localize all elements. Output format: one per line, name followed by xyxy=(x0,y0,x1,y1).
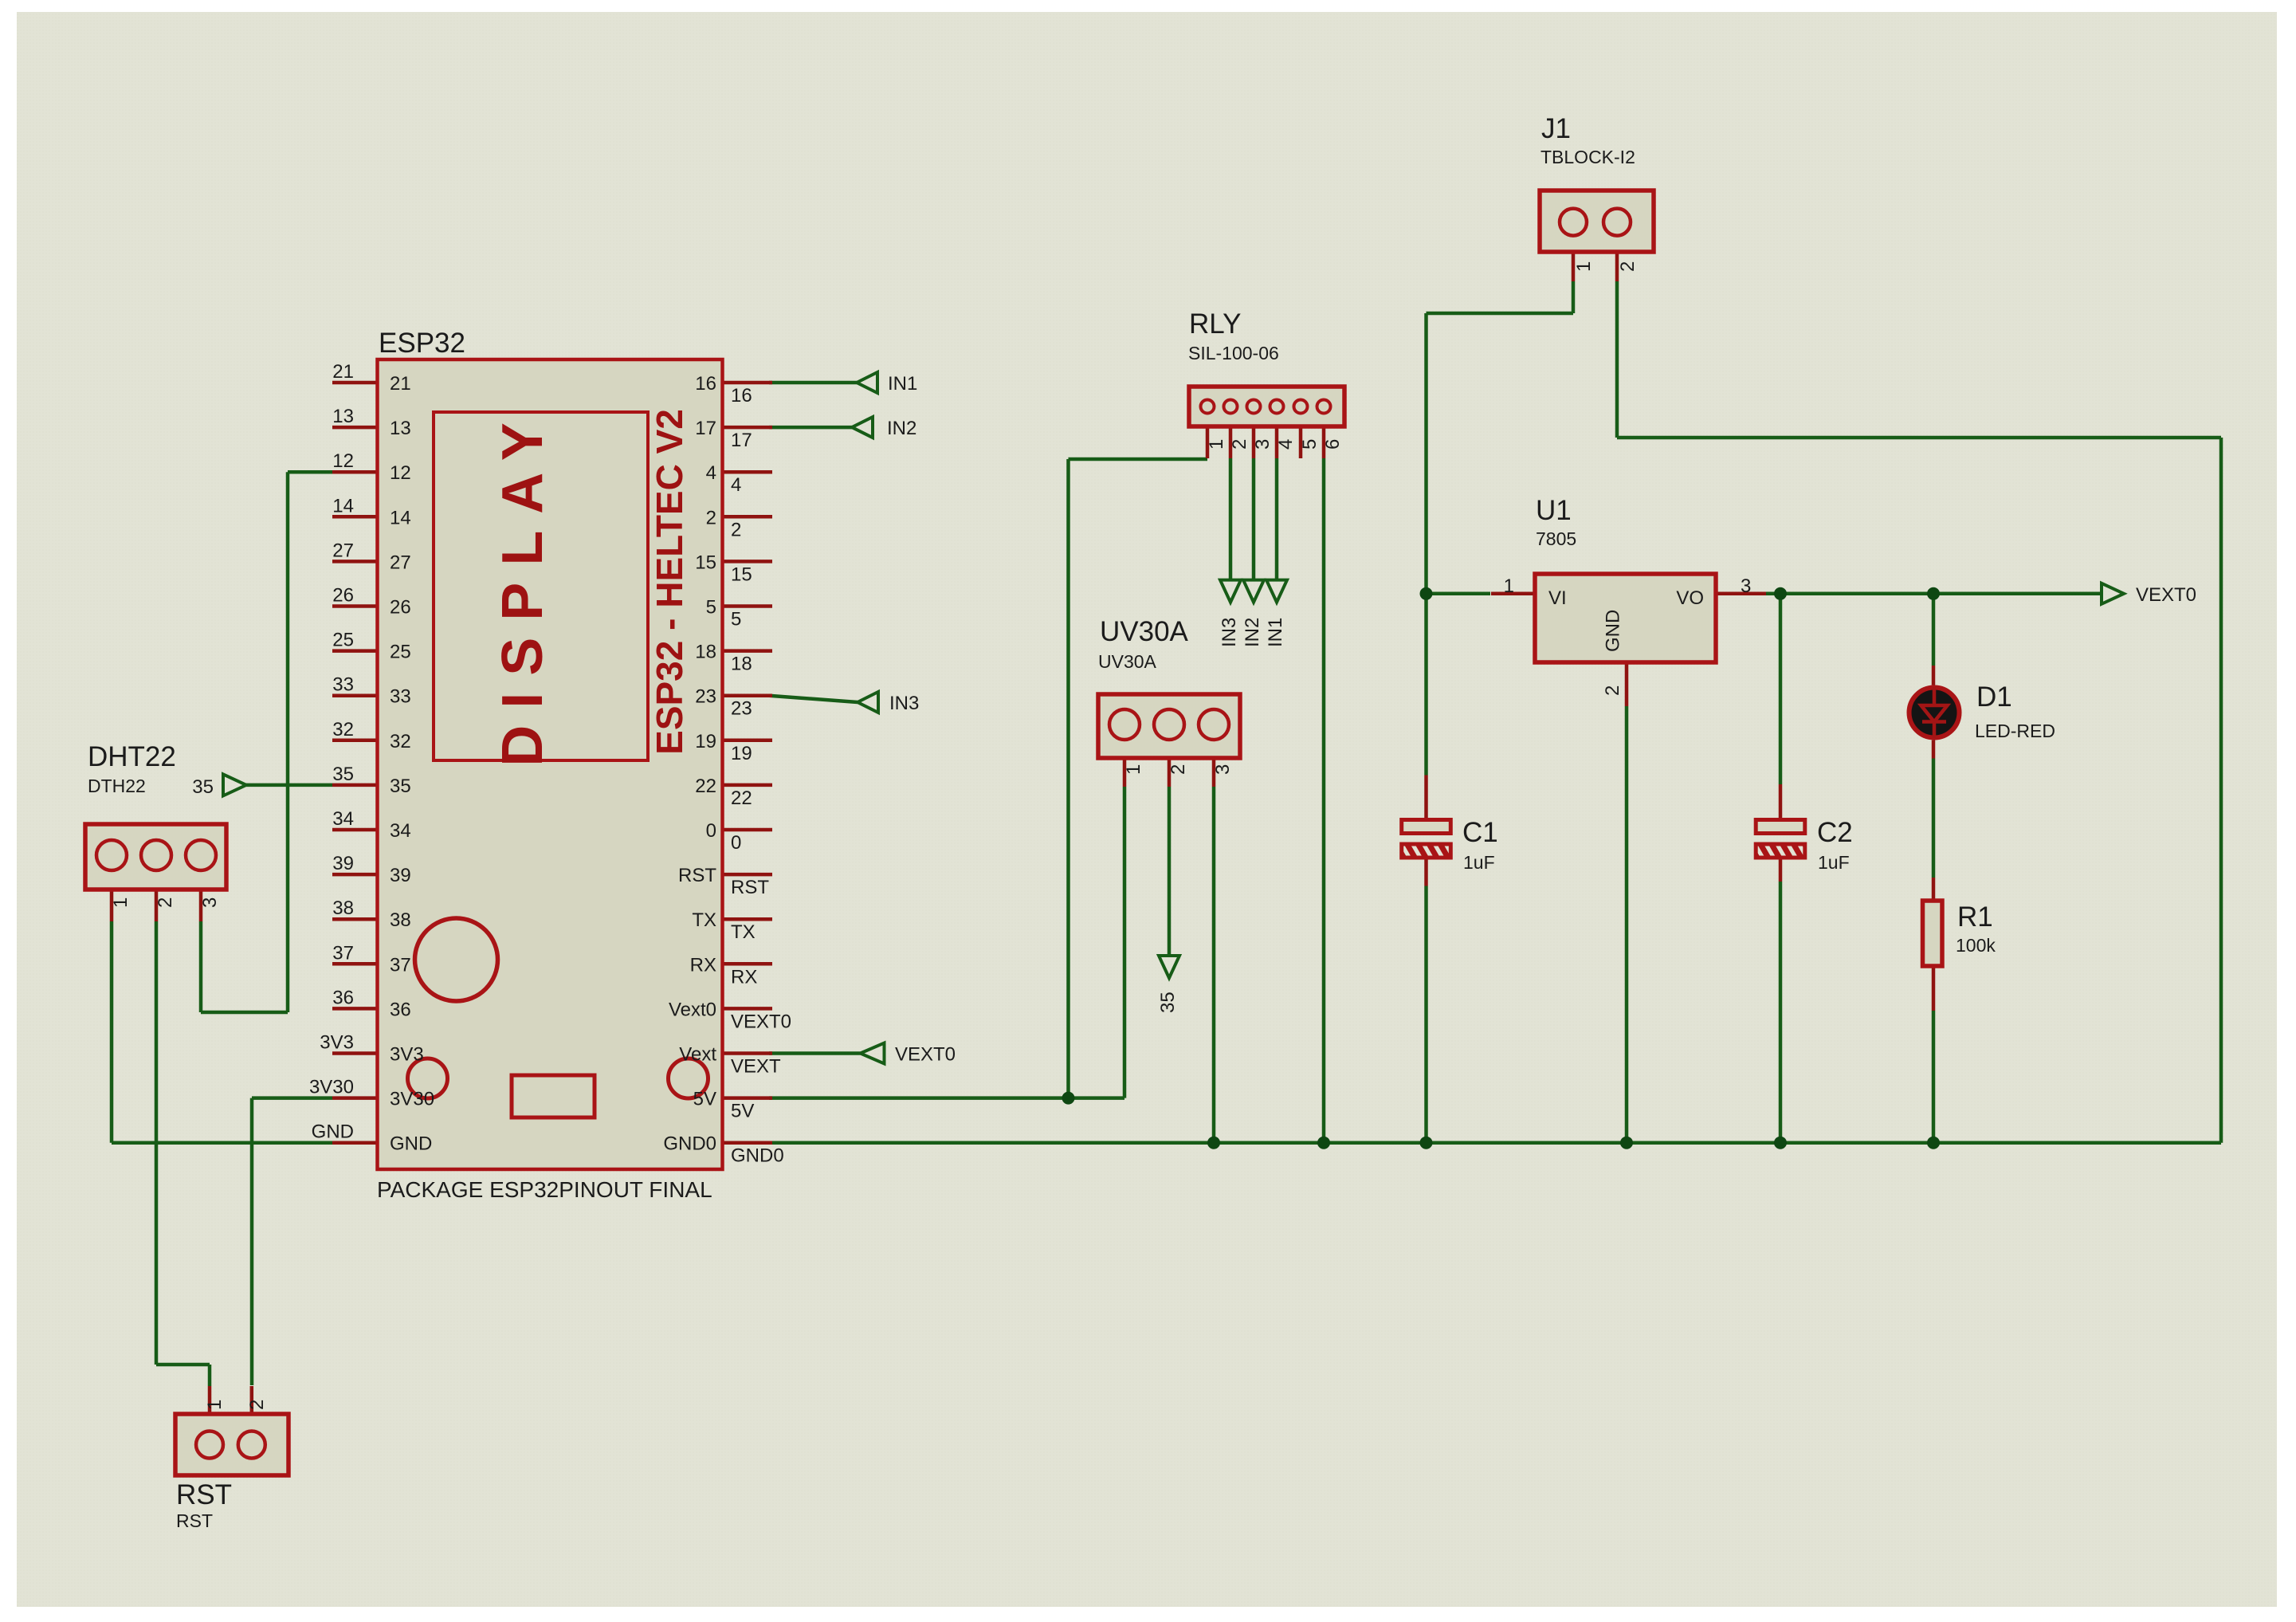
svg-text:2: 2 xyxy=(1602,685,1623,696)
svg-text:IN3: IN3 xyxy=(1219,618,1240,647)
svg-text:0: 0 xyxy=(706,820,716,842)
svg-text:14: 14 xyxy=(390,507,411,528)
svg-text:2: 2 xyxy=(1168,764,1189,775)
svg-text:36: 36 xyxy=(332,987,354,1008)
svg-text:Vext0: Vext0 xyxy=(669,999,716,1020)
svg-text:SIL-100-06: SIL-100-06 xyxy=(1188,343,1279,363)
svg-text:IN1: IN1 xyxy=(1265,618,1286,647)
svg-text:ESP32 - HELTEC V2: ESP32 - HELTEC V2 xyxy=(649,409,690,755)
svg-text:17: 17 xyxy=(731,430,752,451)
svg-text:1: 1 xyxy=(1123,764,1144,775)
svg-text:ESP32: ESP32 xyxy=(379,328,465,359)
svg-text:5V: 5V xyxy=(731,1101,754,1122)
svg-text:4: 4 xyxy=(731,474,741,496)
svg-text:13: 13 xyxy=(332,406,354,427)
svg-text:IN2: IN2 xyxy=(1242,618,1263,647)
svg-text:D1: D1 xyxy=(1976,681,2012,713)
svg-text:3: 3 xyxy=(199,897,221,908)
svg-text:5: 5 xyxy=(731,609,741,630)
svg-text:37: 37 xyxy=(390,954,411,976)
svg-text:RX: RX xyxy=(731,966,757,988)
svg-text:18: 18 xyxy=(695,642,716,663)
svg-text:14: 14 xyxy=(332,495,354,516)
svg-text:VI: VI xyxy=(1548,587,1567,609)
svg-text:19: 19 xyxy=(695,731,716,752)
svg-text:38: 38 xyxy=(332,897,354,919)
svg-text:GND: GND xyxy=(390,1133,432,1155)
svg-text:22: 22 xyxy=(731,787,752,809)
svg-text:100k: 100k xyxy=(1956,935,1996,956)
svg-text:23: 23 xyxy=(695,686,716,708)
svg-text:35: 35 xyxy=(332,764,354,785)
svg-text:VEXT0: VEXT0 xyxy=(2136,584,2196,606)
svg-text:18: 18 xyxy=(731,654,752,675)
svg-text:21: 21 xyxy=(390,373,411,395)
svg-text:GND0: GND0 xyxy=(731,1145,784,1167)
svg-text:3: 3 xyxy=(1212,764,1234,775)
svg-text:IN3: IN3 xyxy=(889,693,919,714)
svg-text:RLY: RLY xyxy=(1189,308,1242,340)
svg-text:1: 1 xyxy=(204,1400,226,1410)
svg-text:VEXT: VEXT xyxy=(731,1056,781,1078)
svg-text:UV30A: UV30A xyxy=(1100,616,1189,647)
svg-text:25: 25 xyxy=(332,630,354,651)
svg-text:1: 1 xyxy=(110,897,131,908)
svg-text:23: 23 xyxy=(731,698,752,720)
svg-text:DHT22: DHT22 xyxy=(88,741,176,772)
svg-text:15: 15 xyxy=(695,552,716,573)
svg-text:15: 15 xyxy=(731,564,752,585)
svg-text:5: 5 xyxy=(1299,439,1321,450)
svg-text:7805: 7805 xyxy=(1536,528,1576,549)
svg-text:RST: RST xyxy=(176,1510,213,1531)
svg-text:5: 5 xyxy=(706,597,716,619)
svg-text:C1: C1 xyxy=(1462,817,1498,848)
svg-text:TX: TX xyxy=(731,921,756,943)
svg-text:36: 36 xyxy=(390,999,411,1020)
svg-text:37: 37 xyxy=(332,942,354,964)
svg-text:17: 17 xyxy=(695,418,716,439)
svg-text:33: 33 xyxy=(390,686,411,708)
svg-text:32: 32 xyxy=(332,719,354,740)
svg-text:3V3: 3V3 xyxy=(320,1032,354,1054)
svg-text:GND0: GND0 xyxy=(663,1133,716,1155)
svg-text:1uF: 1uF xyxy=(1818,852,1850,873)
svg-text:RST: RST xyxy=(176,1479,232,1510)
svg-text:1: 1 xyxy=(1504,575,1514,597)
svg-text:VO: VO xyxy=(1676,587,1704,609)
svg-text:4: 4 xyxy=(706,462,716,484)
svg-text:J1: J1 xyxy=(1541,113,1571,144)
svg-text:27: 27 xyxy=(332,540,354,561)
svg-text:12: 12 xyxy=(390,462,411,484)
svg-text:2: 2 xyxy=(731,519,741,540)
svg-text:U1: U1 xyxy=(1536,495,1572,526)
svg-text:5V: 5V xyxy=(693,1089,716,1110)
svg-text:35: 35 xyxy=(192,776,214,798)
svg-text:GND: GND xyxy=(1603,610,1624,652)
svg-text:C2: C2 xyxy=(1817,817,1853,848)
svg-text:27: 27 xyxy=(390,552,411,573)
svg-text:39: 39 xyxy=(332,853,354,874)
svg-text:VEXT0: VEXT0 xyxy=(895,1044,956,1066)
svg-text:32: 32 xyxy=(390,731,411,752)
svg-text:DTH22: DTH22 xyxy=(88,776,146,796)
svg-text:VEXT0: VEXT0 xyxy=(731,1011,791,1032)
svg-text:33: 33 xyxy=(332,674,354,696)
svg-text:RX: RX xyxy=(690,954,716,976)
svg-text:1uF: 1uF xyxy=(1463,852,1495,873)
svg-text:26: 26 xyxy=(390,597,411,619)
svg-text:UV30A: UV30A xyxy=(1098,651,1157,672)
svg-text:2: 2 xyxy=(246,1400,268,1410)
svg-text:34: 34 xyxy=(390,820,411,842)
svg-text:26: 26 xyxy=(332,585,354,607)
svg-text:2: 2 xyxy=(1229,439,1250,450)
svg-text:RST: RST xyxy=(731,877,769,898)
svg-text:22: 22 xyxy=(695,776,716,797)
svg-text:19: 19 xyxy=(731,743,752,764)
svg-text:IN2: IN2 xyxy=(887,418,916,439)
svg-text:2: 2 xyxy=(706,507,716,528)
svg-text:TBLOCK-I2: TBLOCK-I2 xyxy=(1540,147,1635,167)
svg-text:1: 1 xyxy=(1573,261,1595,272)
svg-text:21: 21 xyxy=(332,361,354,383)
svg-text:35: 35 xyxy=(1157,992,1179,1013)
svg-text:3: 3 xyxy=(1252,439,1274,450)
svg-text:3: 3 xyxy=(1741,575,1751,597)
svg-text:6: 6 xyxy=(1322,439,1344,450)
svg-text:12: 12 xyxy=(332,450,354,472)
svg-text:3V30: 3V30 xyxy=(390,1089,434,1110)
svg-text:RST: RST xyxy=(678,865,716,886)
svg-text:3V3: 3V3 xyxy=(390,1044,424,1066)
svg-text:TX: TX xyxy=(692,909,716,931)
svg-text:25: 25 xyxy=(390,642,411,663)
svg-text:35: 35 xyxy=(390,776,411,797)
svg-text:IN1: IN1 xyxy=(888,373,917,395)
svg-text:13: 13 xyxy=(390,418,411,439)
svg-text:2: 2 xyxy=(1617,261,1639,272)
svg-text:0: 0 xyxy=(731,832,741,854)
svg-text:LED-RED: LED-RED xyxy=(1975,721,2055,741)
svg-text:Vext: Vext xyxy=(679,1044,716,1066)
svg-text:PACKAGE ESP32PINOUT FINAL: PACKAGE ESP32PINOUT FINAL xyxy=(377,1177,712,1202)
svg-text:3V30: 3V30 xyxy=(309,1077,354,1098)
svg-text:34: 34 xyxy=(332,808,354,830)
svg-text:16: 16 xyxy=(731,385,752,406)
svg-text:39: 39 xyxy=(390,865,411,886)
svg-text:GND: GND xyxy=(312,1121,354,1143)
svg-text:DISPLAY: DISPLAY xyxy=(491,406,555,766)
svg-text:R1: R1 xyxy=(1957,901,1993,933)
svg-text:16: 16 xyxy=(695,373,716,395)
svg-text:38: 38 xyxy=(390,909,411,931)
svg-text:4: 4 xyxy=(1275,439,1297,450)
svg-text:2: 2 xyxy=(155,897,176,908)
svg-text:1: 1 xyxy=(1206,439,1227,450)
